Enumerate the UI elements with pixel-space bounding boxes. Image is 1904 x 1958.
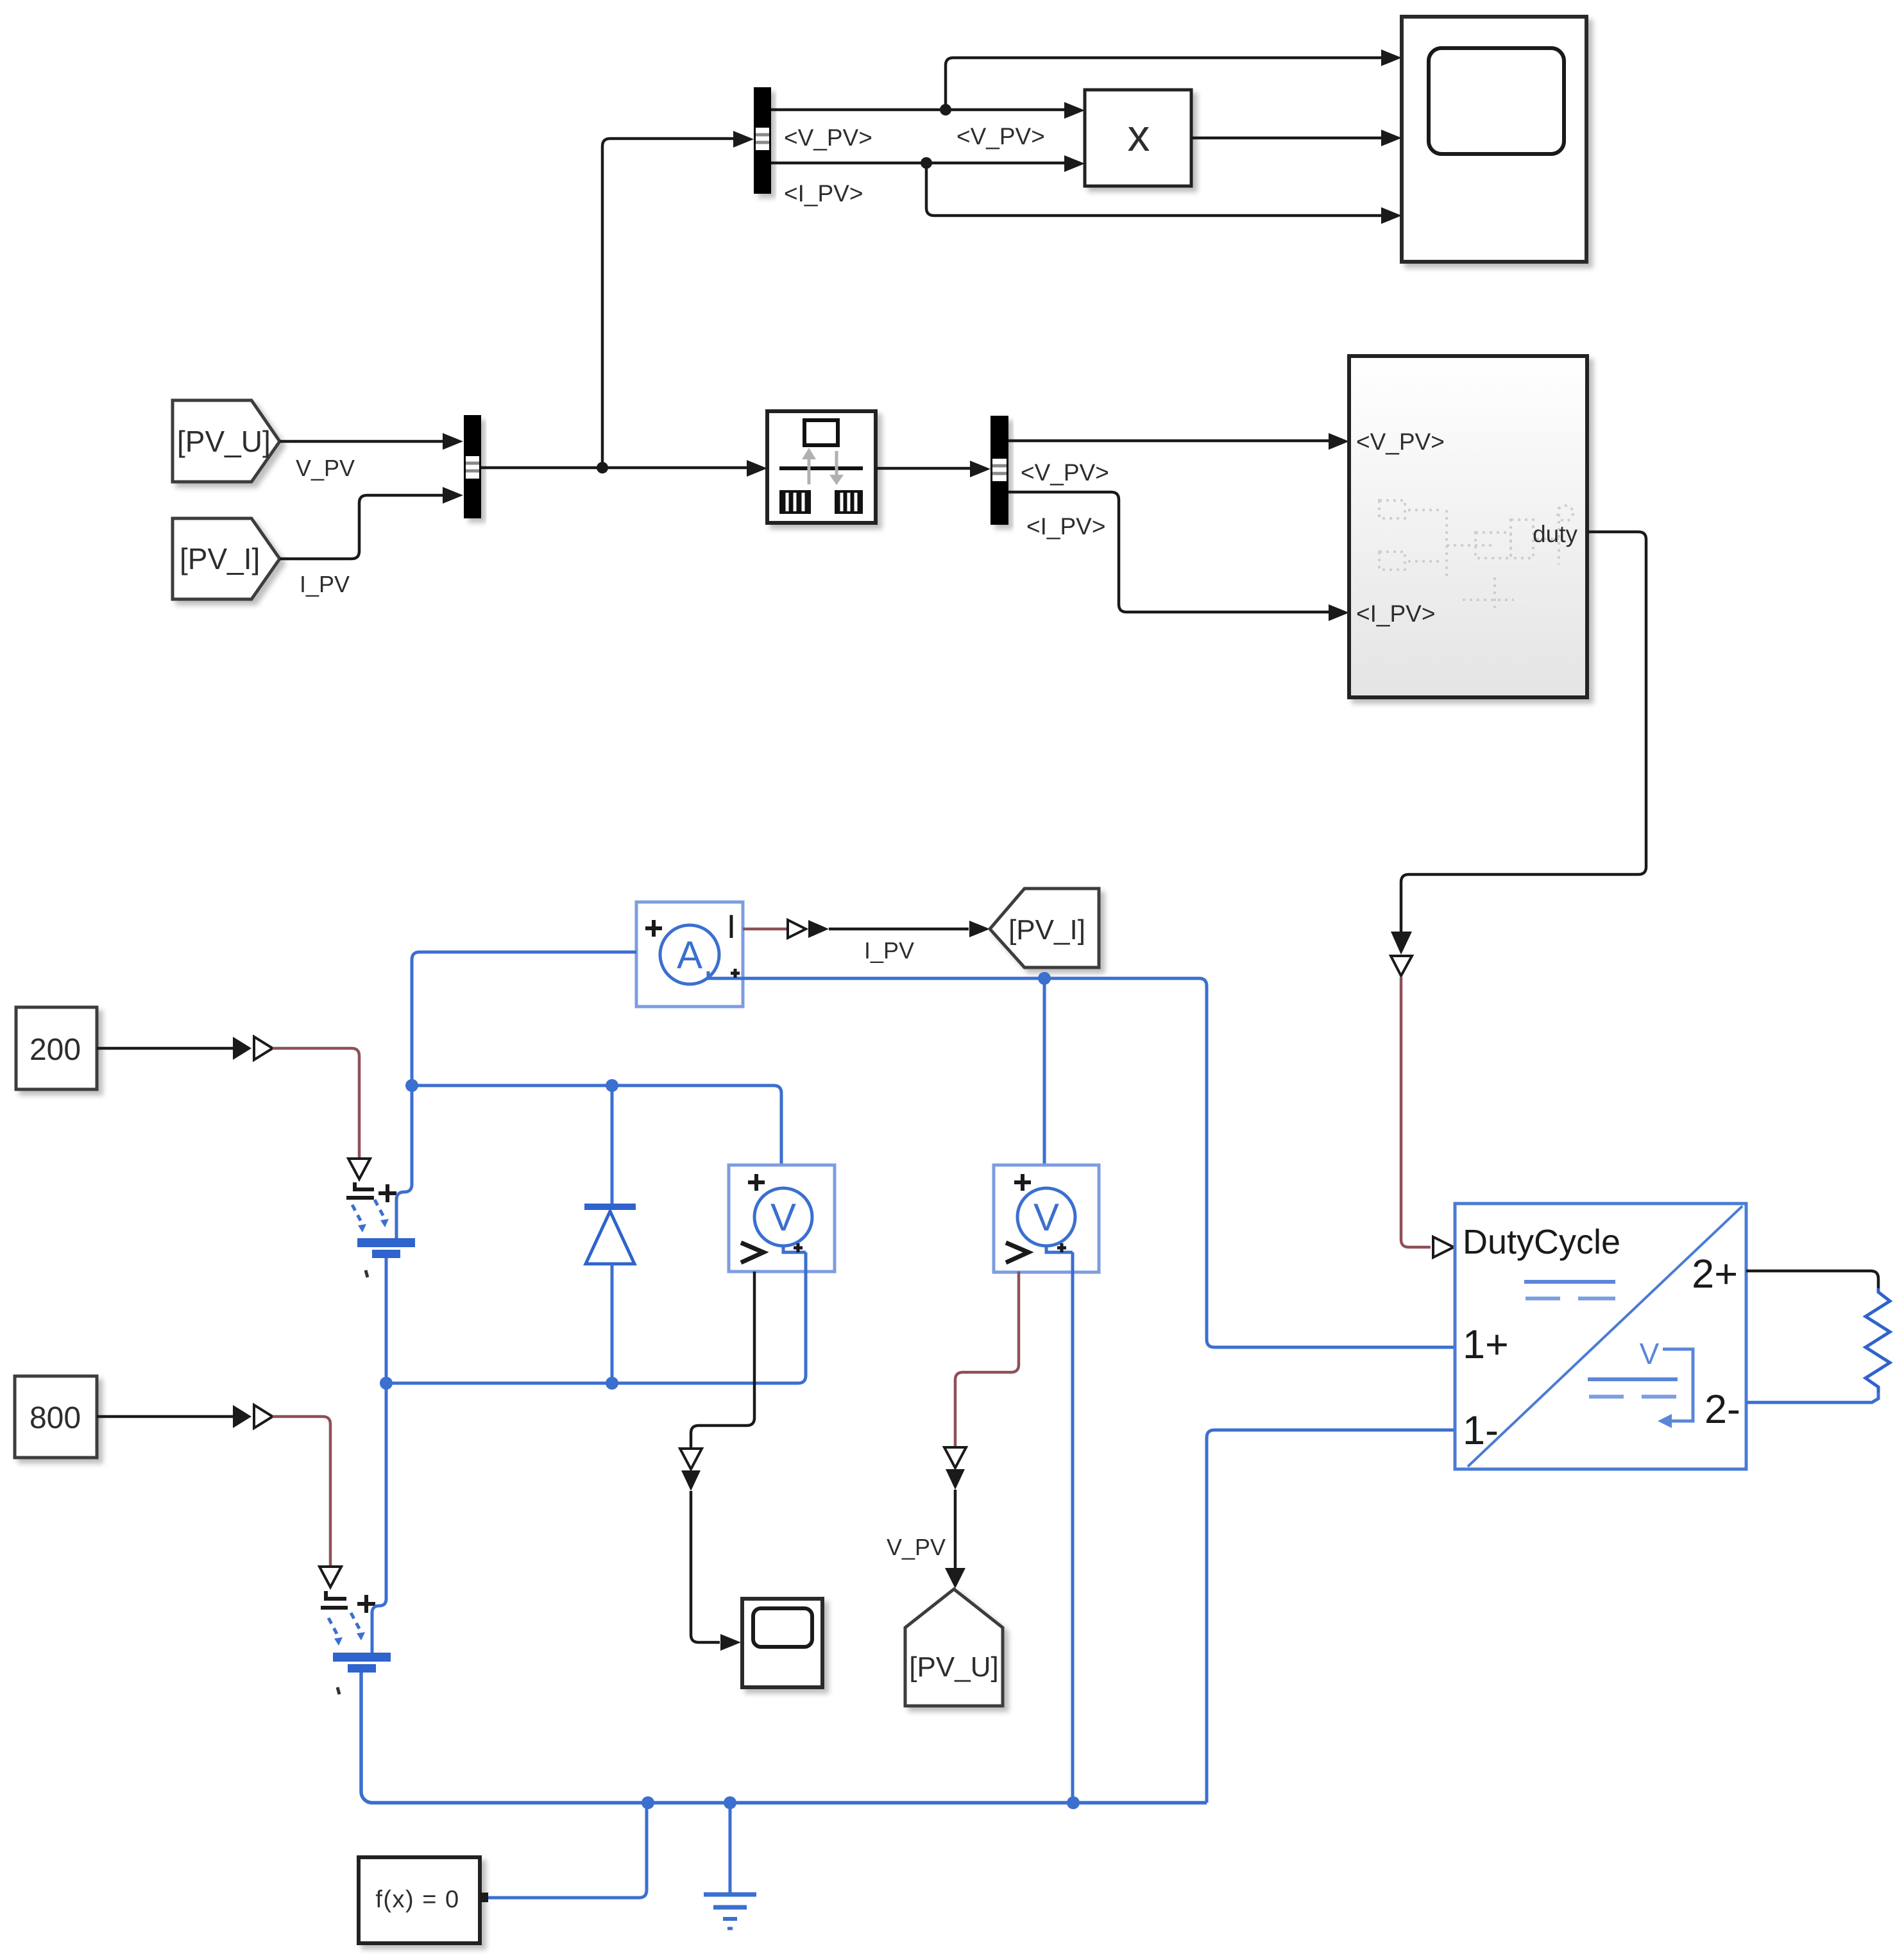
wire ammeter minus to 1plus [743, 978, 1455, 1347]
product block x [1085, 90, 1191, 186]
wire source2 out to bus [361, 1673, 1207, 1803]
wire source1 out [385, 1258, 388, 1383]
voltmeter V1 [729, 1165, 835, 1272]
wire duty to converter [1391, 532, 1646, 1257]
svg-text:[PV_U]: [PV_U] [909, 1651, 998, 1683]
wire demux2 I_PV to MPPT in2 [1008, 492, 1349, 621]
svg-text:f(x) = 0: f(x) = 0 [375, 1886, 459, 1913]
wire resistor to 2minus [1746, 1392, 1878, 1402]
solver f(x)=0 [359, 1857, 488, 1943]
ground [704, 1803, 756, 1928]
wire V1 minus down [386, 1252, 806, 1383]
svg-text:V: V [770, 1196, 796, 1239]
wire ammeter plus left [412, 952, 636, 1085]
wire product to scope in2 [1191, 130, 1402, 146]
svg-text:duty: duty [1533, 521, 1577, 547]
svg-text:800: 800 [30, 1401, 81, 1435]
wire fx to bus [488, 1804, 647, 1898]
svg-text:<V_PV>: <V_PV> [956, 123, 1045, 149]
wire V2 out signal [944, 1272, 1019, 1588]
wire demux1 I_PV to product [771, 155, 1085, 172]
svg-text:[PV_U]: [PV_U] [177, 425, 271, 458]
ammeter A1 [636, 902, 743, 1007]
wire bus up to 1minus [1207, 1430, 1455, 1803]
junction V2 minus [1067, 1796, 1080, 1809]
wire ammeter I out [743, 920, 990, 938]
wire branch up to demux1 [602, 131, 754, 468]
svg-text:<I_PV>: <I_PV> [1356, 600, 1435, 627]
svg-text:2-: 2- [1704, 1387, 1740, 1432]
wire junction to V2 plus [1043, 978, 1046, 1165]
constant 200 [16, 1007, 97, 1089]
mux Mux1 [464, 415, 481, 518]
svg-text:V: V [1640, 1337, 1660, 1370]
svg-text:V_PV: V_PV [296, 455, 355, 481]
demux Demux1 [754, 87, 771, 194]
voltmeter V2 [994, 1165, 1099, 1272]
wire source2 plus [372, 1383, 386, 1653]
junction ground [724, 1796, 736, 1809]
wire PV_U to mux [280, 433, 463, 450]
wire V2 minus to bus [1071, 1252, 1075, 1803]
junction diode bottom [606, 1377, 618, 1390]
demux Demux2 [990, 416, 1008, 525]
wire 2plus to resistor [1746, 1271, 1878, 1288]
wire 200 to converter [97, 1037, 273, 1060]
junction ammeter branch [405, 1079, 418, 1092]
wire demux2 V_PV to MPPT in1 [1008, 433, 1349, 450]
svg-text:V_PV: V_PV [887, 1534, 946, 1560]
subsystem MPPT [1349, 356, 1587, 697]
wire source1 plus [396, 1085, 412, 1238]
wire mux output to rate block [481, 460, 767, 477]
wire PS signal to source2 [273, 1417, 341, 1587]
svg-text:2+: 2+ [1692, 1252, 1738, 1297]
svg-text:V: V [1033, 1196, 1059, 1239]
wire 800 to converter [97, 1405, 273, 1428]
wire node A to V1 plus [412, 1085, 781, 1165]
svg-text:<I_PV>: <I_PV> [1026, 513, 1105, 540]
junction I_PV net [1038, 972, 1051, 985]
from tag PV_I [173, 518, 280, 599]
wire rate block to demux2 [876, 461, 990, 477]
goto tag PV_U [905, 1589, 1003, 1706]
wire PS signal to source1 [273, 1048, 370, 1179]
svg-text:x: x [1128, 110, 1150, 160]
converter DutyCycle [1455, 1204, 1746, 1469]
wire PV_I to mux [280, 487, 463, 559]
resistor R1 [1866, 1288, 1890, 1392]
wire V1 out signal [680, 1272, 754, 1651]
svg-text:I_PV: I_PV [300, 571, 350, 597]
rate transition block [767, 411, 876, 523]
scope Scope1 [1402, 17, 1586, 262]
svg-text:A: A [677, 933, 702, 976]
diode D1 [584, 1085, 636, 1383]
current source Irradiance1 [346, 1182, 415, 1277]
scope Scope2 [742, 1599, 822, 1687]
svg-text:I_PV: I_PV [864, 937, 914, 964]
junction fx [642, 1796, 654, 1809]
constant 800 [15, 1376, 97, 1458]
svg-text:DutyCycle: DutyCycle [1463, 1223, 1620, 1261]
svg-text:I: I [727, 908, 736, 946]
junction source1 out [380, 1377, 393, 1390]
svg-text:1+: 1+ [1463, 1322, 1509, 1367]
svg-text:1-: 1- [1463, 1408, 1499, 1453]
svg-text:<V_PV>: <V_PV> [1356, 429, 1445, 455]
wire branch I_PV to scope in3 [926, 163, 1402, 224]
goto tag PV_I [990, 889, 1099, 967]
svg-text:<V_PV>: <V_PV> [784, 124, 872, 151]
svg-text:<I_PV>: <I_PV> [784, 180, 863, 207]
svg-text:<V_PV>: <V_PV> [1021, 459, 1109, 486]
wire branch V_PV to scope in1 [946, 49, 1402, 110]
svg-text:[PV_I]: [PV_I] [180, 542, 260, 575]
current source Irradiance2 [321, 1591, 391, 1694]
svg-text:[PV_I]: [PV_I] [1008, 914, 1085, 946]
svg-text:200: 200 [30, 1033, 81, 1067]
wire demux1 V_PV to product [771, 102, 1085, 119]
junction diode top [606, 1079, 618, 1092]
from tag PV_U [173, 400, 280, 482]
